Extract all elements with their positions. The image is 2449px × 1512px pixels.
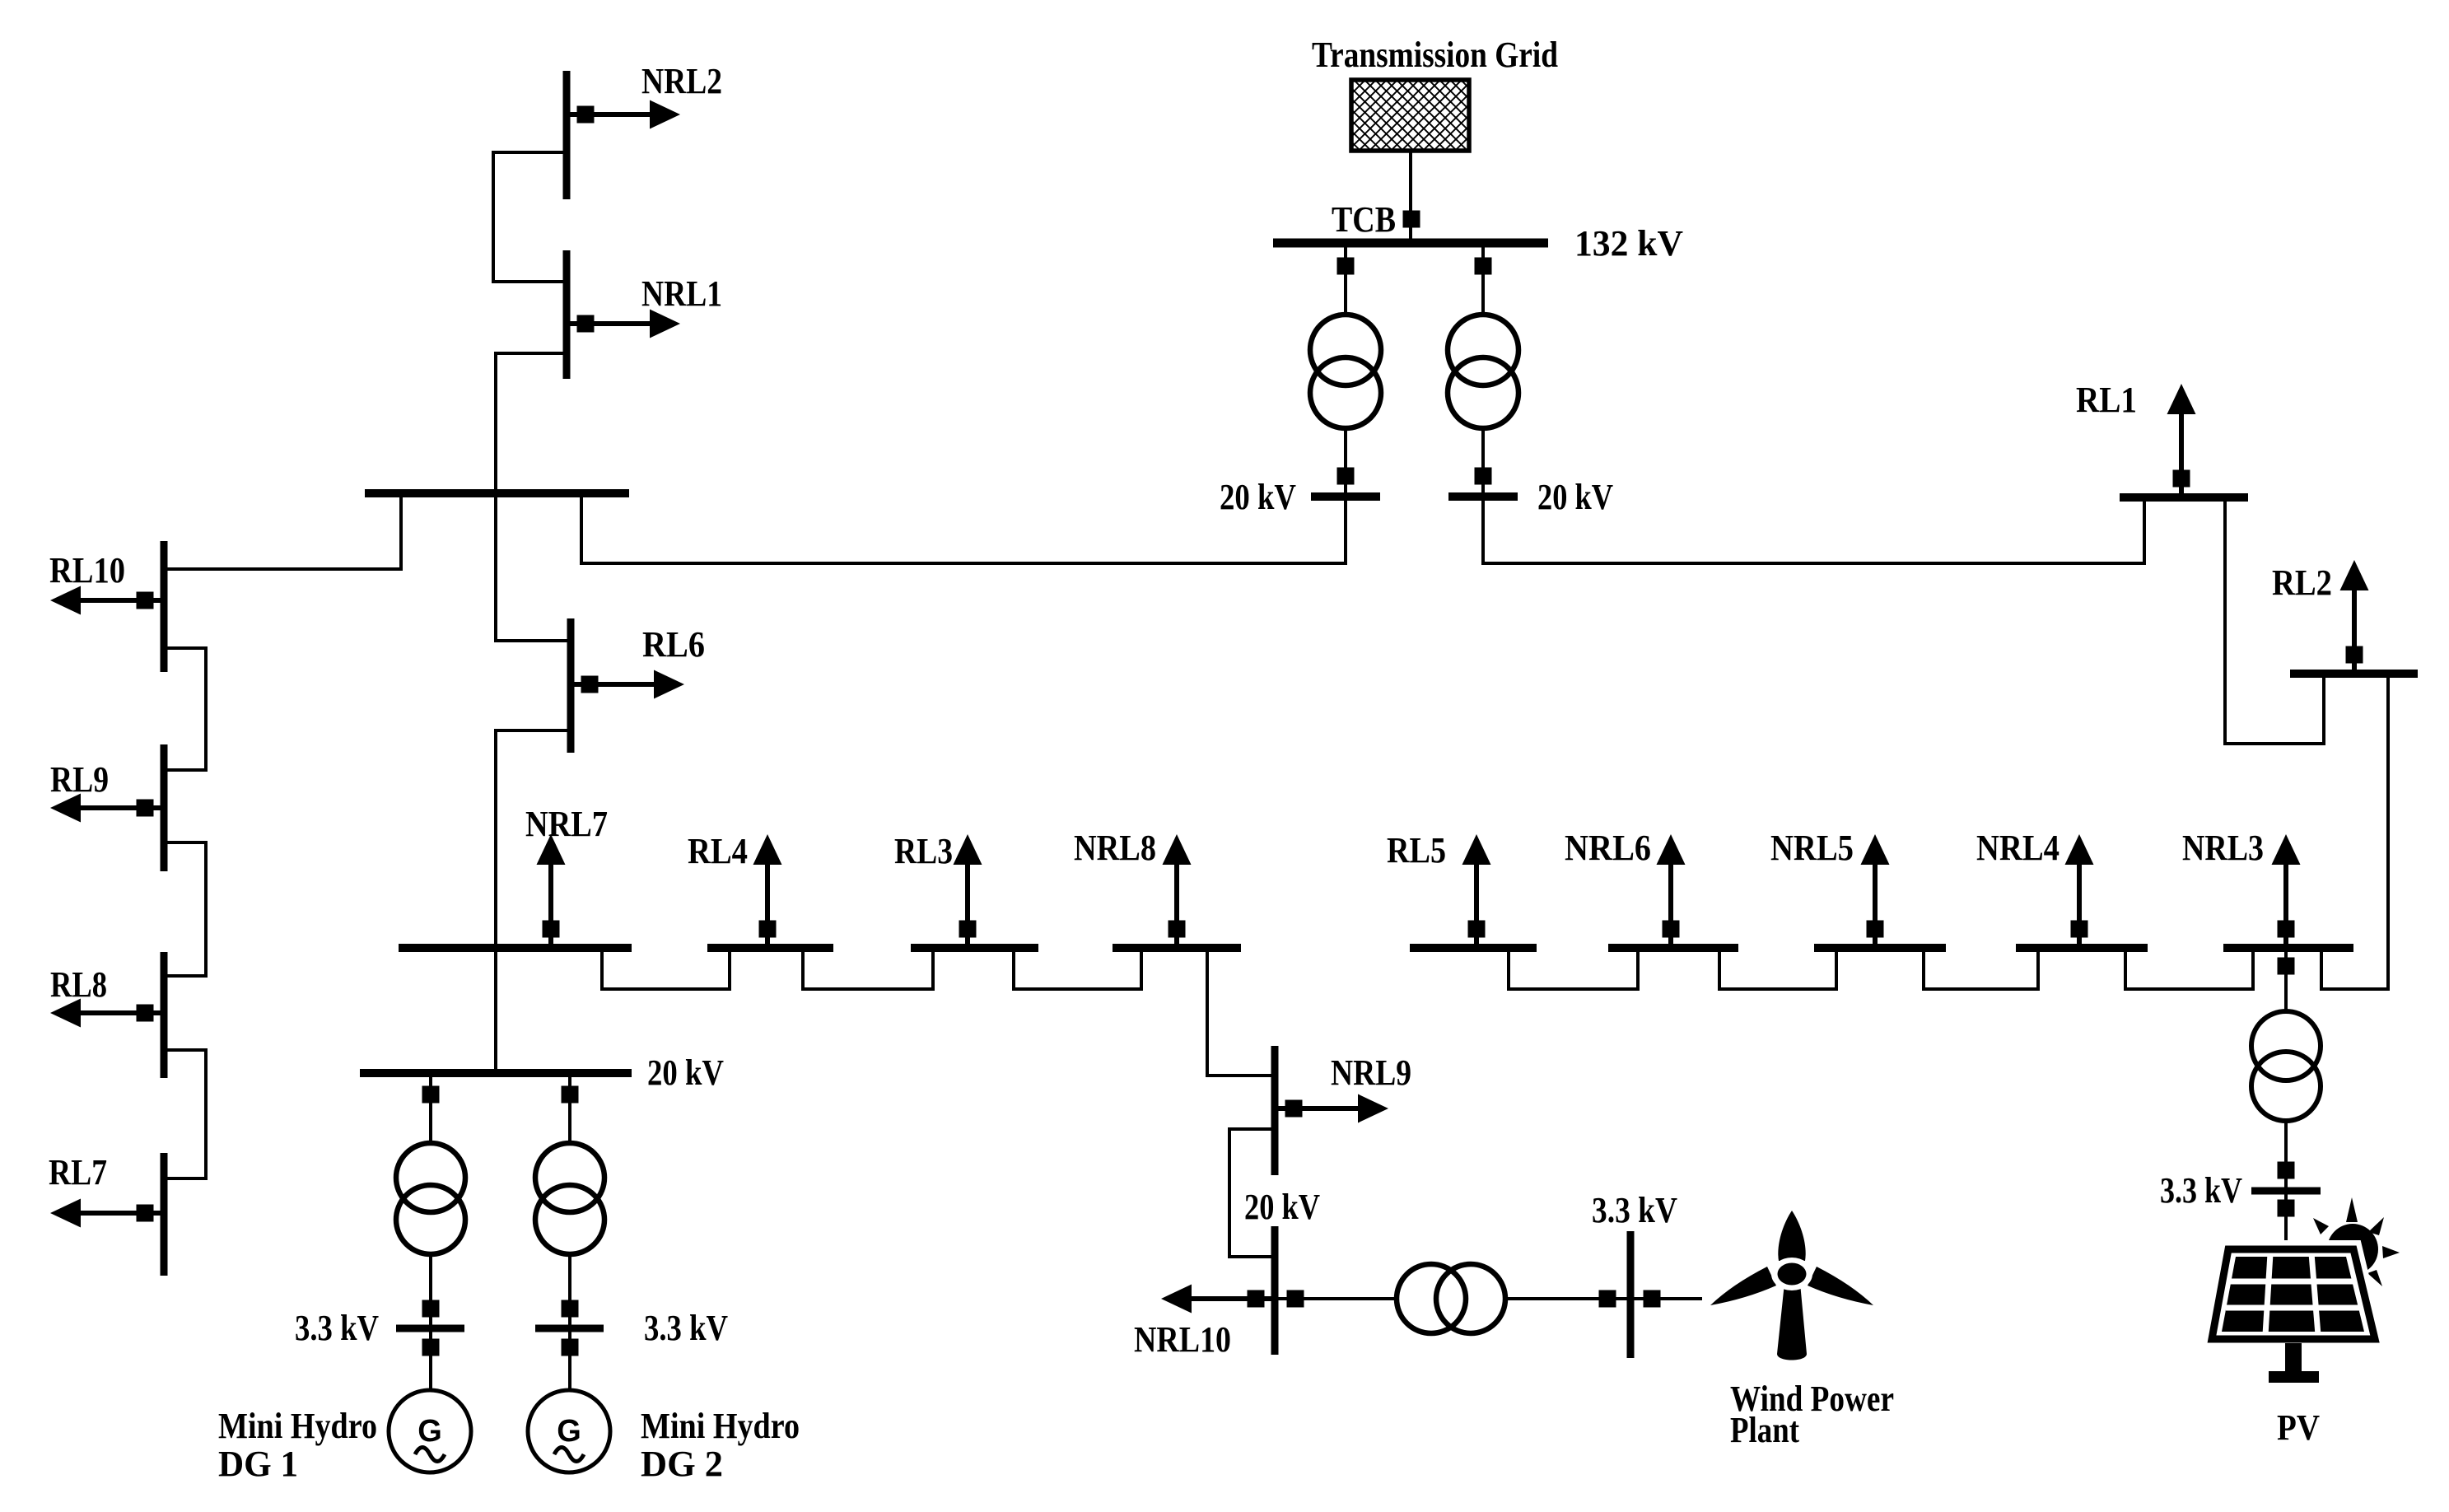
- load arrow RL5: [1462, 834, 1491, 948]
- wire PV transformer to 3.3kV bus: [2284, 1119, 2288, 1191]
- wire RL2 to NRL3 horizontal: [2320, 987, 2390, 991]
- breaker DG1 top: [422, 1086, 440, 1104]
- wire up to NRL3 bus: [2320, 948, 2323, 991]
- wire DG2 transformer to 3.3kV bus: [568, 1253, 571, 1328]
- bus RL9: [161, 744, 168, 871]
- bus NRL7 feeder: [399, 944, 632, 952]
- wire 132kV bus to transformer T2: [1481, 243, 1485, 316]
- wire NRL1 down to main feeder bus: [496, 353, 567, 641]
- bus RL4: [707, 944, 833, 952]
- bus NRL5: [1814, 944, 1946, 952]
- wire NRL2 to NRL1: [493, 152, 567, 282]
- wire PV bus to panel: [2284, 1191, 2288, 1252]
- bus NRL8: [1113, 944, 1241, 952]
- bus 3.3 kV PV: [2251, 1188, 2321, 1195]
- load arrow RL8: [50, 999, 164, 1028]
- svg-text:RL3: RL3: [894, 831, 953, 871]
- svg-text:Mini Hydro: Mini Hydro: [218, 1406, 377, 1446]
- load arrow RL4: [753, 834, 782, 948]
- breaker DG2 top: [562, 1086, 579, 1104]
- sun icon: [2313, 1197, 2400, 1286]
- svg-text:DG 1: DG 1: [218, 1444, 298, 1484]
- wire DG1 transformer top: [429, 1073, 432, 1145]
- load arrow NRL2: [567, 100, 680, 129]
- svg-text:RL6: RL6: [642, 624, 705, 665]
- svg-text:3.3 kV: 3.3 kV: [644, 1308, 728, 1348]
- wire RL9 to RL8: [164, 842, 206, 976]
- svg-text:NRL1: NRL1: [641, 273, 722, 314]
- load arrow RL7: [50, 1199, 164, 1228]
- svg-text:20 kV: 20 kV: [647, 1052, 724, 1093]
- breaker wind 3.3kV right: [1644, 1290, 1661, 1308]
- load arrow RL6: [571, 670, 684, 699]
- transformer PV: [2251, 1011, 2321, 1121]
- breaker T2 bottom: [1475, 468, 1492, 485]
- svg-text:RL1: RL1: [2076, 380, 2137, 420]
- wire NRL8 bus down: [1206, 948, 1209, 1077]
- svg-text:NRL2: NRL2: [641, 61, 722, 101]
- load arrow RL3: [954, 834, 982, 948]
- transmission grid block: [1351, 80, 1469, 151]
- breaker PV bottom: [2278, 1200, 2295, 1217]
- load arrow NRL10: [1161, 1285, 1275, 1314]
- bus 3.3 kV wind: [1627, 1231, 1635, 1358]
- wire NRL4 to NRL3: [2125, 948, 2253, 989]
- bus 20 kV mini hydro: [360, 1069, 632, 1077]
- svg-text:G: G: [557, 1414, 581, 1449]
- transformer DG1: [396, 1143, 465, 1254]
- transformer wind: [1397, 1264, 1505, 1333]
- transformer T2: [1448, 315, 1518, 428]
- wire 20kV right down: [1481, 497, 1485, 563]
- wire RL3 to NRL8: [1014, 948, 1141, 989]
- wire 20kV left down: [1344, 497, 1347, 563]
- transformer T1: [1310, 315, 1381, 428]
- svg-text:Transmission Grid: Transmission Grid: [1312, 35, 1558, 75]
- wire RL6 bottom to feeder: [494, 729, 571, 732]
- svg-text:3.3 kV: 3.3 kV: [1592, 1190, 1677, 1230]
- svg-text:NRL8: NRL8: [1074, 828, 1156, 868]
- wire RL5 to NRL6: [1509, 948, 1638, 989]
- bus NRL1: [563, 250, 571, 379]
- wire RL1 bus down: [2223, 497, 2227, 745]
- load arrow RL10: [50, 586, 164, 615]
- wire RL1 to RL2 horizontal: [2223, 742, 2325, 745]
- svg-text:RL8: RL8: [50, 964, 107, 1005]
- bus 20 kV (right transformer): [1448, 492, 1518, 501]
- svg-text:DG 2: DG 2: [641, 1444, 723, 1484]
- bus RL6: [567, 618, 575, 753]
- svg-text:RL2: RL2: [2272, 562, 2332, 603]
- wire main bus down to RL10: [164, 493, 401, 569]
- svg-text:20 kV: 20 kV: [1220, 477, 1296, 517]
- load arrow RL9: [50, 794, 164, 823]
- breaker TCB: [1403, 211, 1420, 228]
- wire RL10 to RL9: [164, 648, 206, 770]
- svg-text:RL10: RL10: [49, 550, 125, 590]
- wire RL4 to RL3: [803, 948, 933, 989]
- bus RL5: [1410, 944, 1537, 952]
- bus RL10: [161, 541, 168, 672]
- breaker T1 top: [1337, 258, 1355, 275]
- svg-text:NRL9: NRL9: [1331, 1052, 1411, 1093]
- transformer DG2: [535, 1143, 604, 1254]
- generator DG1: [389, 1390, 471, 1472]
- bus RL2: [2290, 670, 2418, 678]
- bus NRL9: [1271, 1046, 1279, 1175]
- svg-text:132 kV: 132 kV: [1574, 223, 1683, 264]
- svg-text:Mini Hydro: Mini Hydro: [641, 1406, 800, 1446]
- wire to NRL9 bus: [1206, 1074, 1275, 1077]
- wire up to RL2 bus: [2322, 674, 2325, 745]
- svg-text:RL5: RL5: [1387, 830, 1446, 870]
- wind turbine icon: [1710, 1211, 1873, 1360]
- wire stub to RL6 top: [494, 639, 571, 642]
- wire NRL6 to NRL5: [1719, 948, 1836, 989]
- svg-text:NRL3: NRL3: [2182, 828, 2264, 868]
- wire wind transformer to 3.3kV bus: [1505, 1297, 1702, 1300]
- bus 20 kV (left transformer): [1311, 492, 1380, 501]
- breaker DG2 bottom: [562, 1339, 579, 1356]
- wire T1 to 20kV bus left: [1344, 427, 1347, 497]
- bus RL7: [161, 1153, 168, 1276]
- wire grid to 132kV bus: [1409, 151, 1412, 243]
- wire NRL7 to RL4: [602, 948, 730, 989]
- breaker wind left: [1287, 1290, 1304, 1308]
- load arrow NRL7: [537, 834, 566, 948]
- load arrow NRL4: [2065, 834, 2094, 948]
- bus NRL4: [2016, 944, 2148, 952]
- breaker DG2 mid: [562, 1300, 579, 1318]
- svg-text:3.3 kV: 3.3 kV: [2160, 1170, 2242, 1211]
- wire T2 to 20kV bus right: [1481, 427, 1485, 497]
- bus RL3: [911, 944, 1038, 952]
- svg-text:NRL6: NRL6: [1565, 828, 1651, 868]
- bus 20 kV wind: [1271, 1226, 1279, 1355]
- PV panel icon: [2212, 1249, 2375, 1339]
- wire DG2 bus to generator: [568, 1328, 571, 1391]
- wire DG2 transformer top: [568, 1073, 571, 1145]
- bus RL1: [2120, 493, 2248, 502]
- svg-text:3.3 kV: 3.3 kV: [295, 1308, 379, 1348]
- wire DG1 transformer to 3.3kV bus: [429, 1253, 432, 1328]
- load arrow RL2: [2340, 560, 2369, 674]
- svg-text:NRL4: NRL4: [1976, 828, 2059, 868]
- wire up to main feeder bus: [580, 493, 583, 565]
- svg-text:RL4: RL4: [688, 831, 748, 871]
- breaker T1 bottom: [1337, 468, 1355, 485]
- wire 20kV right to RL1 bus: [1481, 562, 2146, 565]
- wire main feeder vertical: [494, 730, 497, 1073]
- breaker T2 top: [1475, 258, 1492, 275]
- wire wind bus to transformer: [1275, 1297, 1398, 1300]
- wire RL8 to RL7: [164, 1050, 206, 1178]
- wire RL2 bus down to ring: [2386, 674, 2390, 991]
- bus NRL2: [563, 71, 571, 199]
- wire 20kV left to main feeder bus: [580, 562, 1347, 565]
- load arrow NRL5: [1861, 834, 1890, 948]
- load arrow NRL1: [567, 310, 680, 338]
- breaker PV mid: [2278, 1162, 2295, 1179]
- svg-text:Plant: Plant: [1730, 1410, 1799, 1450]
- svg-text:20 kV: 20 kV: [1244, 1187, 1320, 1227]
- wire DG1 bus to generator: [429, 1328, 432, 1391]
- breaker wind 3.3kV left: [1599, 1290, 1616, 1308]
- bus 3.3 kV DG1: [396, 1325, 464, 1332]
- svg-text:NRL10: NRL10: [1134, 1319, 1231, 1360]
- load arrow RL1: [2167, 384, 2196, 497]
- generator DG2: [528, 1390, 610, 1472]
- bus NRL3: [2223, 944, 2353, 952]
- load arrow NRL3: [2272, 834, 2301, 948]
- svg-text:NRL7: NRL7: [525, 804, 608, 844]
- load arrow NRL9: [1275, 1094, 1388, 1123]
- wire NRL5 to NRL4: [1924, 948, 2038, 989]
- svg-text:PV: PV: [2277, 1407, 2320, 1448]
- svg-text:RL7: RL7: [49, 1152, 107, 1192]
- bus main feeder (top left): [365, 489, 629, 497]
- bus 132 kV: [1273, 239, 1548, 248]
- svg-text:RL9: RL9: [50, 759, 109, 800]
- svg-text:G: G: [417, 1414, 442, 1449]
- wire NRL9 to wind bus: [1229, 1129, 1275, 1257]
- breaker PV top: [2278, 958, 2295, 975]
- bus RL8: [161, 952, 168, 1078]
- wire up to RL1 bus: [2143, 497, 2146, 565]
- load arrow NRL6: [1657, 834, 1686, 948]
- PV stand: [2285, 1343, 2302, 1373]
- bus NRL6: [1608, 944, 1738, 952]
- load arrow NRL8: [1163, 834, 1192, 948]
- breaker DG1 bottom: [422, 1339, 440, 1356]
- wire NRL3 bus down: [2284, 948, 2288, 1013]
- svg-text:TCB: TCB: [1332, 199, 1396, 240]
- svg-text:20 kV: 20 kV: [1537, 477, 1613, 517]
- svg-text:NRL5: NRL5: [1770, 828, 1854, 868]
- breaker DG1 mid: [422, 1300, 440, 1318]
- wire 132kV bus to transformer T1: [1344, 243, 1347, 316]
- bus 3.3 kV DG2: [535, 1325, 604, 1332]
